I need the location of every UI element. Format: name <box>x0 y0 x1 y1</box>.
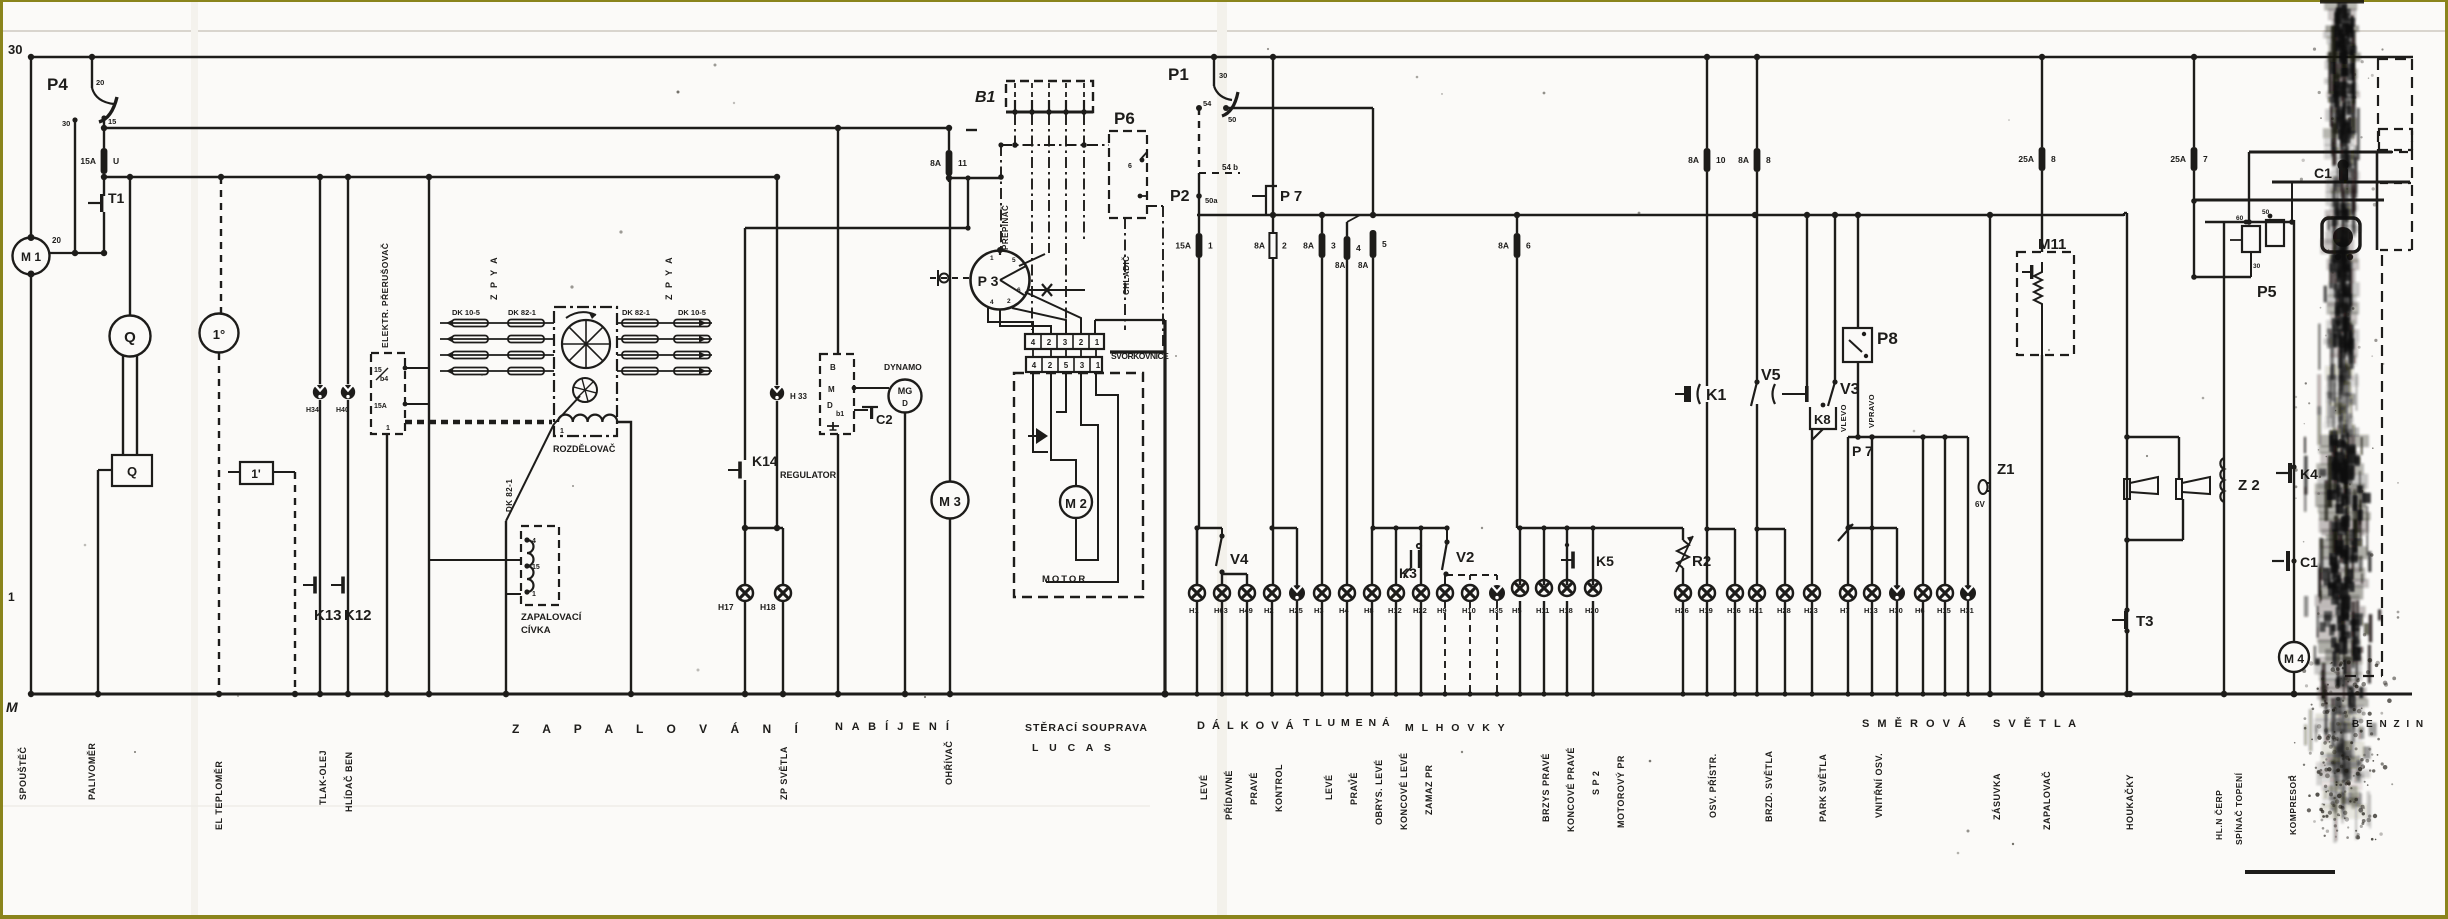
svg-text:T L U M E N Á: T L U M E N Á <box>1303 716 1391 729</box>
svg-text:3: 3 <box>1080 361 1085 370</box>
svg-text:P 3: P 3 <box>978 273 999 289</box>
svg-text:4: 4 <box>1356 243 1361 253</box>
svg-text:DK 82-1: DK 82-1 <box>622 308 650 317</box>
svg-text:HLÍDAČ BEN: HLÍDAČ BEN <box>343 752 354 813</box>
svg-text:4: 4 <box>990 299 994 306</box>
svg-text:CHLADIČ: CHLADIČ <box>1122 256 1131 296</box>
svg-text:H28: H28 <box>1777 606 1791 615</box>
svg-text:6V: 6V <box>1975 500 1985 509</box>
svg-text:H31: H31 <box>1960 606 1974 615</box>
svg-text:M L H O V K Y: M L H O V K Y <box>1405 722 1507 734</box>
svg-text:M 1: M 1 <box>21 250 41 264</box>
svg-text:H15: H15 <box>1937 606 1951 615</box>
svg-text:K4: K4 <box>2300 466 2318 482</box>
svg-text:U: U <box>113 156 119 166</box>
svg-text:BRZD. SVĚTLA: BRZD. SVĚTLA <box>1763 750 1774 822</box>
svg-text:8A: 8A <box>1303 241 1314 251</box>
svg-text:15A: 15A <box>1175 241 1191 251</box>
svg-text:ZAPALOVACÍ: ZAPALOVACÍ <box>521 612 582 623</box>
svg-text:H23: H23 <box>1804 606 1818 615</box>
svg-text:8A: 8A <box>1335 261 1345 270</box>
svg-text:H12: H12 <box>1388 606 1402 615</box>
svg-text:8: 8 <box>1766 155 1771 165</box>
svg-text:2: 2 <box>1048 361 1053 370</box>
svg-text:20: 20 <box>96 78 104 87</box>
svg-text:M: M <box>828 385 835 394</box>
svg-text:20: 20 <box>52 236 61 245</box>
svg-text:H7: H7 <box>1840 606 1850 615</box>
svg-text:PALIVOMĚR: PALIVOMĚR <box>86 743 97 800</box>
svg-text:PŘÍDAVNÉ: PŘÍDAVNÉ <box>1223 770 1234 820</box>
svg-text:V5: V5 <box>1761 367 1781 384</box>
svg-text:30: 30 <box>2253 263 2261 270</box>
svg-text:H34: H34 <box>306 407 319 414</box>
svg-text:DK 10-5: DK 10-5 <box>452 308 480 317</box>
svg-text:M 4: M 4 <box>2284 652 2304 666</box>
svg-text:P6: P6 <box>1114 109 1135 128</box>
svg-text:H19: H19 <box>1699 606 1713 615</box>
svg-text:R2: R2 <box>1692 553 1711 570</box>
svg-text:P4: P4 <box>47 75 68 94</box>
svg-text:2: 2 <box>1079 338 1084 347</box>
svg-text:1: 1 <box>1096 361 1101 370</box>
svg-text:C1: C1 <box>2300 554 2318 570</box>
svg-text:Z 2: Z 2 <box>2238 477 2260 494</box>
svg-text:ROZDĚLOVAČ: ROZDĚLOVAČ <box>553 443 616 454</box>
svg-text:N A B Í J E N Í: N A B Í J E N Í <box>835 720 952 733</box>
svg-text:8: 8 <box>2051 154 2056 164</box>
svg-text:H49: H49 <box>1239 606 1253 615</box>
svg-text:1: 1 <box>560 428 564 435</box>
svg-text:1: 1 <box>1208 241 1213 251</box>
svg-text:H35: H35 <box>1489 606 1503 615</box>
svg-text:PRAVÉ: PRAVÉ <box>1349 772 1359 805</box>
svg-text:8A: 8A <box>1358 261 1368 270</box>
svg-text:b4: b4 <box>380 376 388 383</box>
svg-text:50: 50 <box>1228 115 1236 124</box>
svg-text:1: 1 <box>532 591 536 598</box>
svg-text:HOUKAČKY: HOUKAČKY <box>2124 774 2135 830</box>
svg-text:STĚRACÍ SOUPRAVA: STĚRACÍ SOUPRAVA <box>1025 721 1148 734</box>
svg-text:K3: K3 <box>1399 565 1417 581</box>
svg-text:Z P Y A: Z P Y A <box>664 255 674 300</box>
svg-text:H5: H5 <box>1512 606 1522 615</box>
svg-text:M: M <box>6 699 18 715</box>
svg-text:H16: H16 <box>1727 606 1741 615</box>
svg-text:H6: H6 <box>1915 606 1925 615</box>
svg-text:30: 30 <box>1219 71 1227 80</box>
svg-text:K1: K1 <box>1706 387 1727 404</box>
svg-text:H18: H18 <box>760 602 776 612</box>
svg-text:H11: H11 <box>1536 606 1549 615</box>
svg-text:H30: H30 <box>1889 606 1903 615</box>
svg-text:8A: 8A <box>1738 155 1749 165</box>
svg-text:KOMPRESOR: KOMPRESOR <box>2288 775 2298 835</box>
svg-text:H8: H8 <box>1364 606 1374 615</box>
svg-text:SPOUŠTĚČ: SPOUŠTĚČ <box>17 746 28 800</box>
svg-text:8A: 8A <box>1254 241 1265 251</box>
svg-text:T3: T3 <box>2136 613 2154 630</box>
svg-text:H25: H25 <box>1289 606 1303 615</box>
svg-text:Z P Y A: Z P Y A <box>489 255 499 300</box>
svg-text:P8: P8 <box>1877 329 1898 348</box>
svg-text:15: 15 <box>374 367 382 374</box>
svg-text:T1: T1 <box>108 190 125 206</box>
svg-text:MG: MG <box>898 386 913 396</box>
svg-text:2: 2 <box>1047 338 1052 347</box>
svg-text:6: 6 <box>1017 287 1021 294</box>
svg-text:H2: H2 <box>1264 606 1274 615</box>
svg-text:PARK SVĚTLA: PARK SVĚTLA <box>1817 754 1828 822</box>
svg-text:L U C A S: L U C A S <box>1032 742 1115 754</box>
svg-text:H18: H18 <box>1559 606 1573 615</box>
svg-text:OHŘÍVAČ: OHŘÍVAČ <box>943 741 954 785</box>
svg-text:CÍVKA: CÍVKA <box>521 625 551 636</box>
svg-text:2: 2 <box>1282 241 1287 251</box>
svg-text:50a: 50a <box>1205 196 1218 205</box>
svg-text:54 b: 54 b <box>1222 163 1238 172</box>
svg-text:H63: H63 <box>1214 606 1228 615</box>
svg-text:8A: 8A <box>930 158 941 168</box>
svg-text:5: 5 <box>1012 257 1016 264</box>
svg-text:V2: V2 <box>1456 549 1474 566</box>
svg-text:S P 2: S P 2 <box>1591 771 1601 795</box>
svg-text:KONCOVÉ LEVÉ: KONCOVÉ LEVÉ <box>1399 752 1409 830</box>
svg-text:BRZYS PRAVÉ: BRZYS PRAVÉ <box>1541 753 1551 822</box>
svg-text:15: 15 <box>108 117 116 126</box>
svg-text:6: 6 <box>1128 163 1132 170</box>
svg-text:P1: P1 <box>1168 65 1189 84</box>
svg-text:MOTOROVÝ PR: MOTOROVÝ PR <box>1615 755 1626 828</box>
svg-text:Z A P A L O V Á N Í: Z A P A L O V Á N Í <box>512 721 808 736</box>
svg-text:15A: 15A <box>80 156 96 166</box>
svg-text:DK 10-5: DK 10-5 <box>678 308 706 317</box>
svg-text:B: B <box>830 363 836 372</box>
svg-text:1: 1 <box>386 425 390 432</box>
svg-text:H20: H20 <box>1585 606 1599 615</box>
svg-text:4: 4 <box>532 538 536 545</box>
svg-text:S V Ě T L A: S V Ě T L A <box>1993 717 2079 730</box>
svg-text:11: 11 <box>958 158 967 168</box>
svg-text:5: 5 <box>1382 239 1387 249</box>
svg-text:P 7: P 7 <box>1852 443 1873 459</box>
svg-text:3: 3 <box>1331 241 1336 251</box>
svg-text:M 3: M 3 <box>939 494 961 509</box>
svg-text:ELEKTR. PŘERUŠOVAČ: ELEKTR. PŘERUŠOVAČ <box>379 243 390 348</box>
svg-text:Q: Q <box>124 329 136 346</box>
svg-text:K14: K14 <box>752 453 778 469</box>
svg-text:D: D <box>902 399 908 408</box>
svg-text:LEVÉ: LEVÉ <box>1324 774 1334 800</box>
svg-text:P 7: P 7 <box>1280 188 1302 205</box>
svg-text:8A: 8A <box>1498 241 1509 251</box>
svg-text:1': 1' <box>251 467 261 481</box>
svg-text:H1: H1 <box>1189 606 1199 615</box>
svg-text:54: 54 <box>1203 99 1212 108</box>
svg-text:1: 1 <box>1095 338 1100 347</box>
svg-text:15: 15 <box>532 564 540 571</box>
svg-text:Q: Q <box>127 464 137 479</box>
svg-text:1: 1 <box>990 255 994 262</box>
svg-text:D Á L K O V Á: D Á L K O V Á <box>1197 719 1296 732</box>
svg-text:DK 82-1: DK 82-1 <box>505 479 514 512</box>
svg-text:VNITŘNÍ OSV.: VNITŘNÍ OSV. <box>1873 753 1884 818</box>
svg-text:30: 30 <box>62 119 70 128</box>
svg-text:25A: 25A <box>2170 154 2186 164</box>
svg-text:REGULATOR: REGULATOR <box>780 470 837 480</box>
svg-text:6: 6 <box>1526 241 1531 251</box>
svg-text:2: 2 <box>1007 298 1011 305</box>
svg-text:C2: C2 <box>876 412 893 427</box>
svg-text:H40: H40 <box>336 407 349 414</box>
svg-text:H9: H9 <box>1437 606 1447 615</box>
svg-text:P2: P2 <box>1170 188 1190 205</box>
svg-text:4: 4 <box>1031 338 1036 347</box>
svg-text:K8: K8 <box>1814 412 1831 427</box>
svg-text:EL TEPLOMĚR: EL TEPLOMĚR <box>213 761 224 830</box>
svg-text:HL.N ČERP: HL.N ČERP <box>2213 790 2224 840</box>
svg-text:ZAPALOVAČ: ZAPALOVAČ <box>2041 771 2052 830</box>
svg-text:7: 7 <box>2203 154 2208 164</box>
svg-text:PRAVÉ: PRAVÉ <box>1249 772 1259 805</box>
svg-text:5: 5 <box>1064 361 1069 370</box>
svg-text:B1: B1 <box>975 89 996 106</box>
svg-text:ZÁSUVKA: ZÁSUVKA <box>1992 773 2002 820</box>
svg-text:H22: H22 <box>1413 606 1427 615</box>
svg-text:K12: K12 <box>344 607 372 624</box>
svg-text:V4: V4 <box>1230 551 1249 568</box>
svg-text:KONCOVÉ PRAVÉ: KONCOVÉ PRAVÉ <box>1566 747 1576 832</box>
svg-text:VPRAVO: VPRAVO <box>1867 394 1876 428</box>
svg-text:D: D <box>827 401 833 410</box>
svg-text:M 2: M 2 <box>1065 496 1087 511</box>
svg-text:ZAMAZ PR: ZAMAZ PR <box>1424 765 1434 816</box>
svg-text:M11: M11 <box>2038 236 2066 253</box>
svg-text:VLEVO: VLEVO <box>1839 404 1848 432</box>
svg-text:V3: V3 <box>1840 381 1860 398</box>
svg-text:Z1: Z1 <box>1997 461 2015 478</box>
svg-text:H26: H26 <box>1675 606 1689 615</box>
svg-text:LEVÉ: LEVÉ <box>1199 774 1209 800</box>
svg-text:25A: 25A <box>2018 154 2034 164</box>
svg-text:4: 4 <box>1032 361 1037 370</box>
svg-text:15A: 15A <box>374 403 387 410</box>
svg-text:60: 60 <box>2236 215 2244 222</box>
svg-text:b1: b1 <box>836 411 844 418</box>
svg-text:H 33: H 33 <box>790 392 807 401</box>
svg-text:MOTOR: MOTOR <box>1042 574 1087 585</box>
svg-text:OSV. PŘÍSTR.: OSV. PŘÍSTR. <box>1707 753 1718 818</box>
svg-text:10: 10 <box>1716 155 1726 165</box>
svg-text:1: 1 <box>8 590 15 604</box>
svg-text:H17: H17 <box>718 602 734 612</box>
svg-text:3: 3 <box>1063 338 1068 347</box>
svg-text:H21: H21 <box>1749 606 1763 615</box>
svg-text:8A: 8A <box>1688 155 1699 165</box>
svg-text:OBRYS. LEVÉ: OBRYS. LEVÉ <box>1374 759 1384 825</box>
svg-text:DYNAMO: DYNAMO <box>884 362 922 372</box>
svg-text:TLAK-OLEJ: TLAK-OLEJ <box>318 750 328 805</box>
svg-text:SPÍNAČ TOPENÍ: SPÍNAČ TOPENÍ <box>2233 772 2244 845</box>
svg-text:50: 50 <box>2262 209 2270 216</box>
svg-text:K13: K13 <box>314 607 342 624</box>
svg-text:1°: 1° <box>213 327 225 342</box>
svg-text:DK 82-1: DK 82-1 <box>508 308 536 317</box>
svg-text:PŘEPÍNAČ: PŘEPÍNAČ <box>1001 205 1010 250</box>
svg-text:ZP SVĚTLA: ZP SVĚTLA <box>778 746 789 800</box>
svg-text:KONTROL: KONTROL <box>1274 764 1284 812</box>
svg-text:H3: H3 <box>1314 606 1324 615</box>
svg-text:P5: P5 <box>2257 284 2277 301</box>
svg-text:K5: K5 <box>1596 553 1614 569</box>
svg-text:H13: H13 <box>1864 606 1878 615</box>
svg-text:S M Ě R O V Á: S M Ě R O V Á <box>1862 717 1968 730</box>
svg-text:H4: H4 <box>1339 606 1349 615</box>
svg-text:30: 30 <box>8 42 22 57</box>
svg-text:H10: H10 <box>1462 606 1476 615</box>
